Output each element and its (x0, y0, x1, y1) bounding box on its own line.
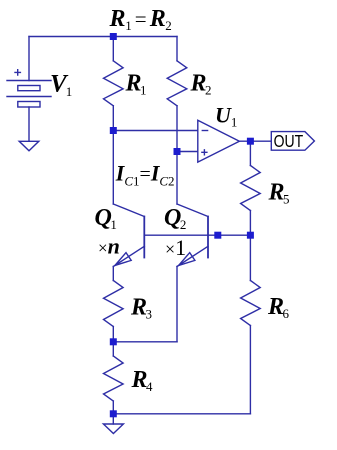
node op-amp output (247, 138, 254, 145)
svg-text:R2: R2 (190, 70, 212, 97)
wire R1 top lead (112, 37, 114, 61)
svg-text:V1: V1 (50, 71, 72, 100)
op-amp U1 (198, 120, 240, 162)
resistor R6 (241, 281, 261, 326)
node Q2 base (214, 232, 221, 239)
transistor Q1 (113, 204, 144, 267)
svg-text:R1: R1 (125, 70, 147, 97)
svg-text:R4: R4 (131, 367, 154, 394)
wire Q2 emitter down (176, 267, 178, 342)
wire R4 top lead (112, 342, 114, 356)
wire R5 top lead (249, 141, 251, 165)
wire inverting input (113, 130, 198, 132)
resistor R3 (104, 281, 124, 327)
node base bus right (247, 232, 254, 239)
node non-inverting input (174, 148, 181, 155)
svg-text:×1: ×1 (165, 235, 186, 260)
svg-text:OUT: OUT (274, 131, 304, 151)
wire top rail (29, 36, 177, 38)
wire op-amp output (239, 140, 270, 142)
wire battery top lead (28, 37, 30, 81)
wire ground stub (112, 414, 114, 424)
wire R5 bottom lead (249, 211, 251, 236)
wire Q1 emitter lead (112, 267, 114, 281)
wire non-inverting input (177, 151, 198, 153)
wire R1 bottom to Q1 collector (112, 106, 114, 204)
wire R4 bottom lead (112, 401, 114, 414)
resistor R1 (104, 61, 124, 106)
wire R3 bottom lead (112, 327, 114, 342)
wire bottom rail (113, 413, 250, 415)
svg-text:R6: R6 (267, 294, 290, 321)
node inverting input (110, 127, 117, 134)
wire R6 bottom lead (249, 326, 251, 414)
node R3 bottom (110, 338, 117, 345)
port OUT flag (271, 132, 314, 151)
svg-text:R5: R5 (268, 180, 290, 207)
node R1 top (110, 33, 117, 40)
resistor R2 (167, 61, 187, 106)
node ground rail (110, 410, 117, 417)
wire battery bottom lead (28, 107, 30, 141)
svg-text:U1: U1 (215, 102, 237, 129)
svg-text:IC1=IC2: IC1=IC2 (115, 161, 175, 189)
svg-text:Q1: Q1 (95, 205, 117, 232)
wire R2 bottom to Q2 collector (176, 106, 178, 204)
svg-text:Q2: Q2 (164, 205, 186, 232)
svg-text:R1=R2: R1=R2 (109, 6, 172, 33)
ground (bottom) (103, 424, 123, 434)
svg-text:R3: R3 (130, 295, 152, 322)
resistor R4 (104, 356, 124, 401)
svg-text:×n: ×n (98, 234, 120, 259)
transistor Q2 (177, 204, 208, 267)
wire R2 top lead (176, 37, 178, 61)
wire emitter bus to R3 node (113, 341, 177, 343)
battery V1 (7, 70, 51, 107)
ground (battery) (19, 141, 39, 151)
wire base bus Q1-Q2-node (144, 234, 250, 236)
wire R6 top lead (249, 235, 251, 280)
resistor R5 (241, 166, 261, 211)
